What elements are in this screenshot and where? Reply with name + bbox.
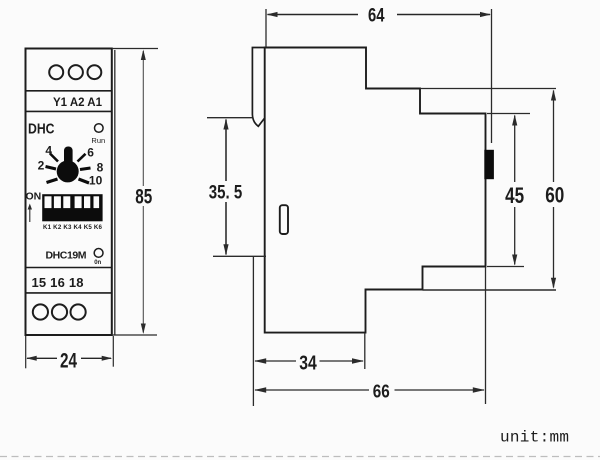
dial tick up-left — [50, 154, 58, 162]
top terminal circle 3 — [88, 65, 102, 79]
separator below 15 16 18 — [26, 292, 112, 294]
85 arrow down — [141, 324, 146, 335]
64 left extension line — [265, 9, 267, 47]
separator below top terminals — [26, 90, 112, 92]
separator above 15 16 18 — [26, 267, 112, 269]
top terminal circle 2 — [69, 65, 83, 79]
svg-text:2: 2 — [38, 159, 45, 173]
64 dimension line right — [397, 14, 490, 16]
64 right extension line — [491, 9, 493, 143]
45 bottom reference line — [487, 266, 524, 268]
dial tick down-left — [47, 179, 58, 183]
66 dimension line left — [255, 389, 369, 391]
DIP switch block — [42, 194, 102, 221]
45 arrow up — [512, 115, 517, 126]
66 right extension line — [485, 267, 487, 404]
34 right extension line — [364, 333, 366, 369]
dial tick up-right — [78, 154, 86, 162]
On indicator circle — [94, 249, 103, 258]
34 left extension line — [252, 256, 254, 406]
85 arrow up — [141, 50, 146, 61]
35.5 dimension line lower — [225, 202, 227, 255]
60 arrow up — [551, 90, 556, 101]
45 dimension line lower — [514, 207, 516, 265]
front view right side edge line — [114, 50, 116, 335]
dial tick left — [46, 167, 57, 170]
85 top extension line — [112, 48, 158, 50]
Run indicator circle — [95, 124, 104, 133]
85 bottom extension line — [112, 334, 157, 336]
svg-text:66: 66 — [373, 381, 390, 402]
24 dimension line right — [81, 357, 111, 359]
35.5 arrow up — [223, 119, 228, 130]
svg-text:Y1 A2 A1: Y1 A2 A1 — [53, 97, 103, 109]
svg-text:ON: ON — [26, 191, 42, 203]
45 dimension line upper — [514, 116, 516, 183]
svg-text:35. 5: 35. 5 — [209, 182, 243, 203]
bottom terminal circle 2 — [52, 304, 67, 319]
svg-text:10: 10 — [89, 174, 103, 188]
85 dimension line upper — [142, 51, 144, 186]
svg-text:60: 60 — [545, 183, 564, 208]
34 arrow right — [352, 358, 364, 364]
top terminal circle 1 — [49, 65, 63, 79]
34 arrow left — [254, 358, 266, 364]
35.5 arrow down — [223, 244, 228, 255]
60 arrow down — [551, 278, 556, 289]
66 dimension line right — [395, 389, 485, 391]
ON up arrow — [29, 208, 31, 222]
DIN clip tab upper-left — [252, 48, 264, 127]
35.5 dimension line upper — [225, 120, 227, 182]
66 arrow right — [473, 387, 485, 393]
dial tick down-right — [79, 179, 90, 183]
side clip black detail — [484, 150, 494, 179]
rotary dial pointer — [64, 147, 73, 169]
34 dimension line right — [320, 360, 364, 362]
24 left extension line — [25, 336, 27, 368]
svg-text:6: 6 — [87, 146, 94, 160]
svg-text:DHC19M: DHC19M — [46, 250, 87, 262]
dial tick right — [80, 168, 91, 170]
svg-text:K1 K2 K3 K4 K5 K6: K1 K2 K3 K4 K5 K6 — [43, 224, 103, 231]
svg-text:34: 34 — [299, 352, 317, 375]
60 dimension line upper — [553, 91, 555, 183]
34 dimension line left — [255, 360, 296, 362]
separator below Y1 A2 A1 — [26, 110, 112, 112]
svg-text:unit:mm: unit:mm — [500, 429, 569, 447]
64 dimension line left — [268, 14, 359, 16]
svg-text:4: 4 — [45, 144, 52, 158]
45 top reference line — [487, 113, 530, 115]
45 arrow down — [512, 255, 517, 266]
60 dimension line lower — [553, 207, 555, 288]
svg-text:15 16 18: 15 16 18 — [32, 275, 84, 290]
24 arrow left — [26, 356, 37, 361]
svg-text:Run: Run — [91, 136, 105, 145]
64 arrow right — [480, 12, 491, 17]
bottom terminal circle 1 — [33, 304, 48, 319]
svg-text:85: 85 — [135, 186, 152, 209]
svg-text:8: 8 — [97, 161, 104, 175]
svg-text:DHC: DHC — [28, 121, 55, 138]
DIP switch windows — [45, 196, 100, 208]
side slot detail — [280, 205, 288, 234]
24 right extension line — [112, 336, 114, 367]
35.5 top reference line — [207, 117, 252, 119]
24 dimension line left — [27, 357, 57, 359]
rotary dial knob — [57, 160, 79, 182]
35.5 bottom reference line — [213, 255, 266, 257]
svg-text:45: 45 — [505, 183, 524, 208]
60 top reference line — [420, 88, 556, 90]
svg-text:24: 24 — [60, 350, 77, 373]
66 arrow left — [254, 387, 266, 393]
svg-text:0n: 0n — [94, 260, 101, 266]
24 arrow right — [102, 356, 113, 361]
bottom photo edge line — [0, 456, 600, 458]
svg-text:64: 64 — [368, 5, 385, 26]
85 dimension line lower — [142, 206, 144, 333]
60 bottom reference line — [423, 289, 557, 291]
bottom terminal circle 3 — [71, 304, 86, 319]
64 arrow left — [267, 12, 278, 17]
side view body outline — [265, 48, 486, 333]
front view body outline — [26, 49, 112, 336]
